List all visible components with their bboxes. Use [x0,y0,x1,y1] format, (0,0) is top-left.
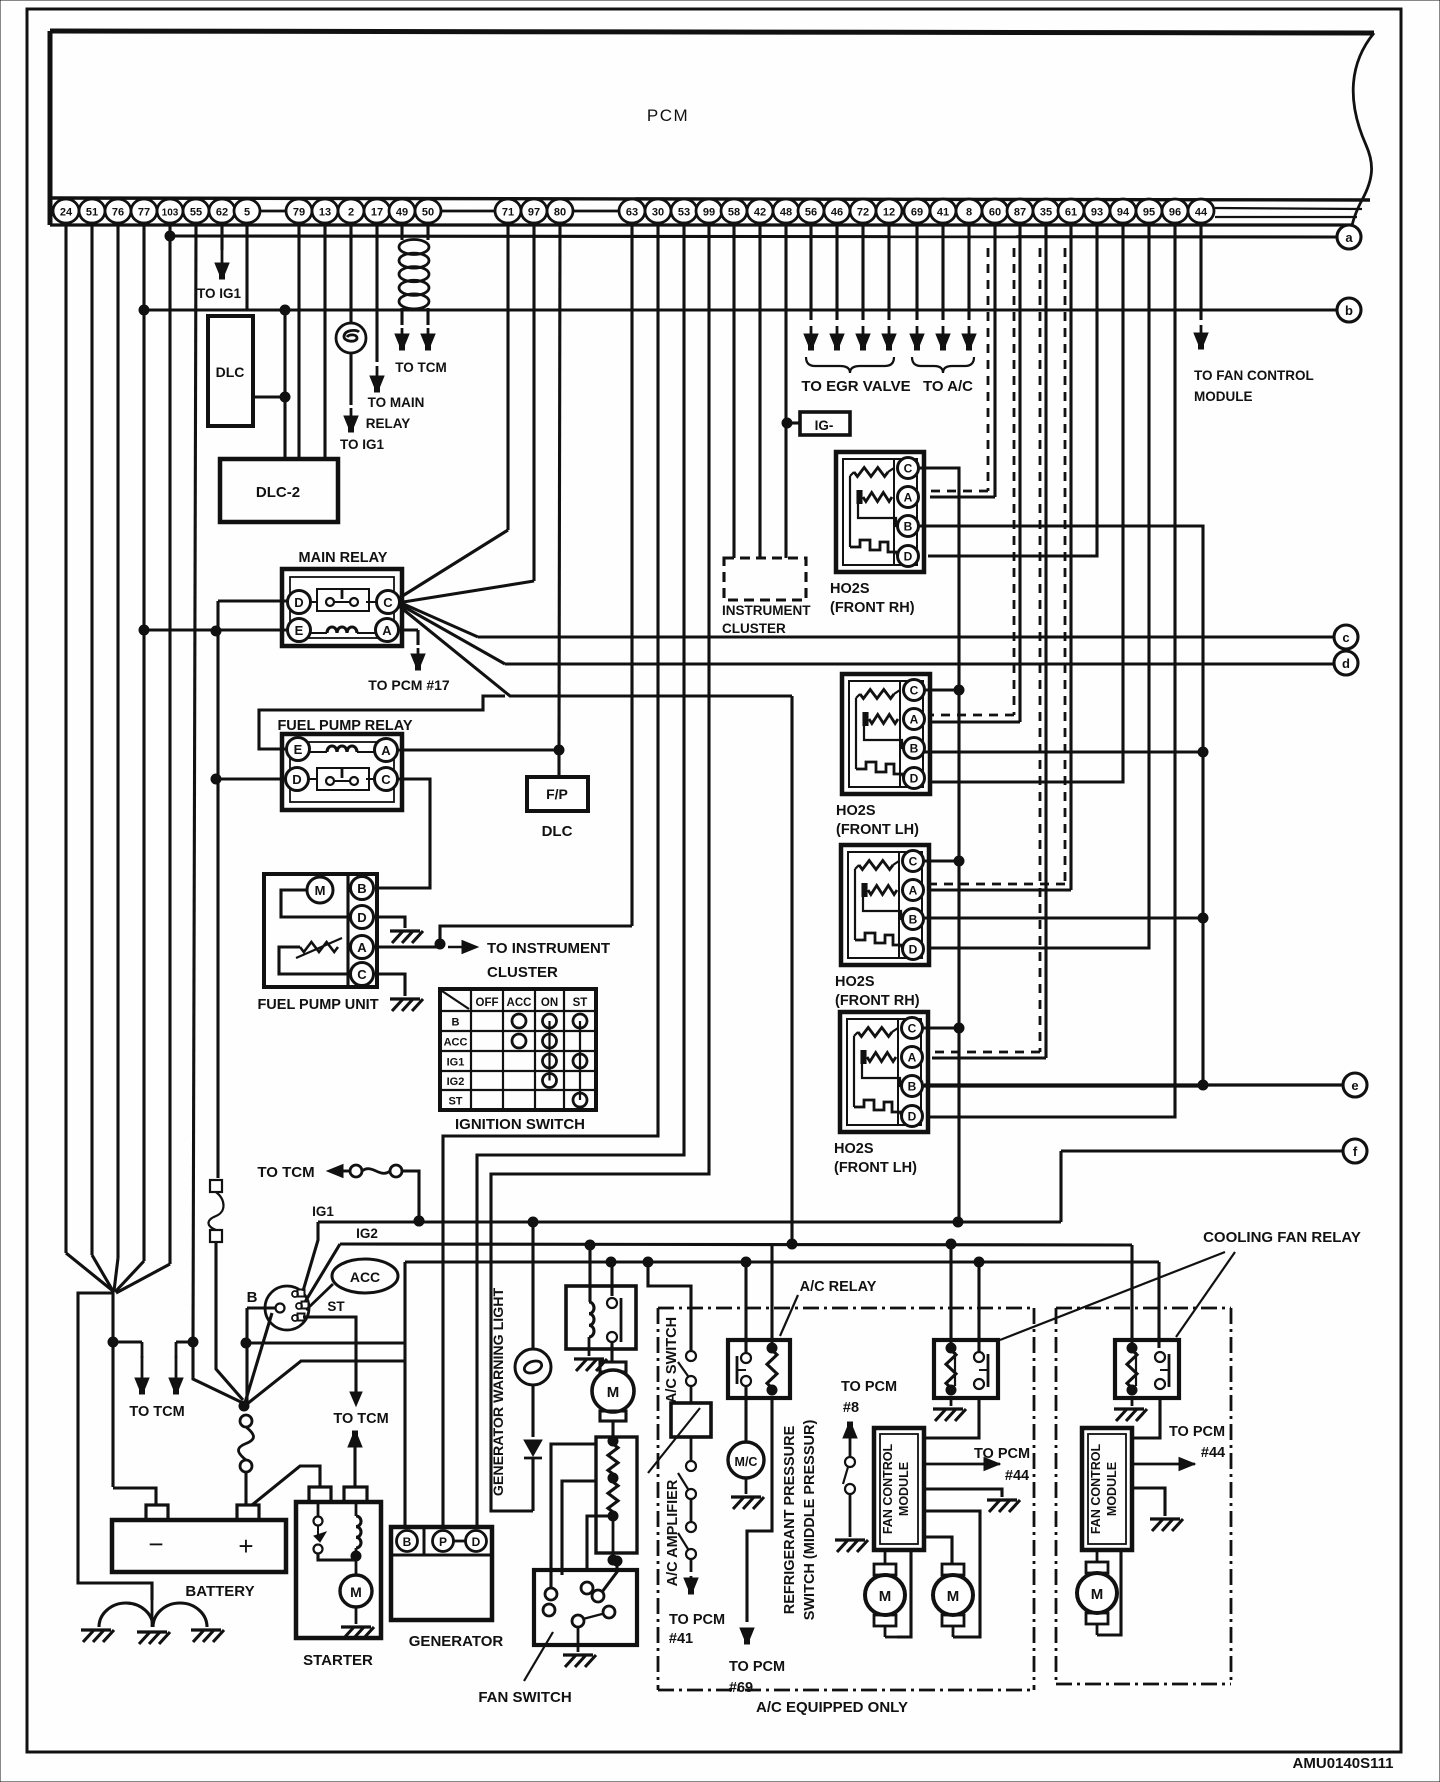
svg-text:SWITCH (MIDDLE PRESSUR): SWITCH (MIDDLE PRESSUR) [802,1420,818,1621]
svg-text:B: B [909,913,918,927]
svg-text:−: − [148,1529,163,1559]
svg-text:#8: #8 [843,1400,859,1416]
svg-text:PCM: PCM [647,106,689,125]
svg-text:58: 58 [728,207,740,219]
svg-text:OFF: OFF [476,997,499,1009]
svg-text:ST: ST [448,1096,462,1108]
svg-text:INSTRUMENT: INSTRUMENT [722,603,811,618]
svg-text:IG2: IG2 [356,1226,378,1241]
svg-text:B: B [403,1535,412,1549]
svg-text:C: C [383,595,393,610]
svg-text:M: M [315,883,326,898]
svg-text:D: D [292,772,301,787]
svg-text:ST: ST [573,997,588,1009]
svg-text:C: C [909,855,918,869]
svg-text:A: A [910,713,919,727]
svg-text:TO PCM #17: TO PCM #17 [368,677,450,693]
svg-text:94: 94 [1117,207,1130,219]
svg-text:C: C [908,1022,917,1036]
svg-text:71: 71 [502,207,514,219]
svg-text:TO EGR VALVE: TO EGR VALVE [801,378,910,395]
svg-text:12: 12 [883,207,895,219]
svg-text:79: 79 [293,207,305,219]
svg-text:(FRONT RH): (FRONT RH) [835,993,920,1009]
svg-text:95: 95 [1143,207,1155,219]
svg-text:BATTERY: BATTERY [185,1583,254,1600]
svg-text:TO PCM: TO PCM [669,1612,725,1628]
svg-text:TO TCM: TO TCM [395,360,447,375]
svg-text:(FRONT RH): (FRONT RH) [830,600,915,616]
svg-text:FAN CONTROL: FAN CONTROL [1089,1444,1103,1535]
svg-text:53: 53 [678,207,690,219]
svg-text:DLC: DLC [216,364,245,380]
svg-text:M: M [350,1584,362,1600]
svg-text:MODULE: MODULE [1194,389,1253,404]
svg-text:MODULE: MODULE [897,1462,911,1516]
svg-text:FUEL PUMP UNIT: FUEL PUMP UNIT [257,997,378,1013]
svg-text:D: D [357,910,366,925]
svg-text:TO TCM: TO TCM [257,1164,314,1181]
svg-text:44: 44 [1195,207,1208,219]
svg-text:P: P [439,1535,447,1549]
svg-text:103: 103 [162,208,179,219]
svg-text:96: 96 [1169,207,1181,219]
svg-text:TO INSTRUMENT: TO INSTRUMENT [487,940,610,957]
svg-text:A: A [382,623,392,638]
svg-text:ST: ST [327,1299,345,1314]
svg-text:FAN CONTROL: FAN CONTROL [881,1444,895,1535]
svg-text:72: 72 [857,207,869,219]
svg-text:(FRONT LH): (FRONT LH) [836,822,919,838]
svg-text:60: 60 [989,207,1001,219]
svg-text:COOLING FAN RELAY: COOLING FAN RELAY [1203,1229,1361,1246]
svg-text:A/C EQUIPPED ONLY: A/C EQUIPPED ONLY [756,1699,908,1716]
svg-text:87: 87 [1014,207,1026,219]
svg-text:CLUSTER: CLUSTER [487,964,558,981]
svg-text:b: b [1345,303,1353,318]
svg-text:A: A [357,940,367,955]
svg-text:B: B [247,1289,258,1306]
svg-text:A: A [909,884,918,898]
svg-text:#69: #69 [729,1680,753,1696]
svg-text:5: 5 [244,207,250,219]
svg-text:TO TCM: TO TCM [333,1411,388,1427]
svg-text:97: 97 [528,207,540,219]
svg-text:M: M [947,1588,960,1605]
svg-text:D: D [909,943,918,957]
svg-text:30: 30 [652,207,664,219]
svg-text:TO TCM: TO TCM [129,1404,184,1420]
svg-text:C: C [381,772,391,787]
svg-text:REFRIGERANT PRESSURE: REFRIGERANT PRESSURE [782,1425,798,1614]
svg-text:TO MAIN: TO MAIN [368,395,425,410]
svg-text:TO PCM: TO PCM [974,1446,1030,1462]
svg-text:41: 41 [937,207,949,219]
svg-text:ACC: ACC [350,1269,380,1285]
svg-text:MAIN RELAY: MAIN RELAY [299,550,388,566]
svg-text:GENERATOR: GENERATOR [409,1633,504,1650]
svg-text:#44: #44 [1005,1468,1029,1484]
svg-text:56: 56 [805,207,817,219]
svg-text:TO A/C: TO A/C [923,378,973,395]
svg-text:B: B [908,1080,917,1094]
svg-text:F/P: F/P [546,786,568,802]
svg-text:B: B [904,520,913,534]
svg-text:42: 42 [754,207,766,219]
svg-text:TO FAN CONTROL: TO FAN CONTROL [1194,368,1314,383]
svg-text:E: E [294,742,303,757]
svg-text:D: D [908,1110,917,1124]
svg-text:80: 80 [554,207,566,219]
svg-text:d: d [1342,656,1350,671]
svg-text:B: B [452,1017,460,1029]
svg-text:IG2: IG2 [447,1076,465,1088]
svg-text:GENERATOR WARNING LIGHT: GENERATOR WARNING LIGHT [491,1287,507,1496]
svg-text:2: 2 [348,207,354,219]
svg-text:48: 48 [780,207,792,219]
svg-text:TO PCM: TO PCM [1169,1424,1225,1440]
svg-text:M: M [879,1588,892,1605]
svg-text:D: D [472,1535,481,1549]
svg-text:HO2S: HO2S [830,581,870,597]
svg-text:IGNITION SWITCH: IGNITION SWITCH [455,1116,585,1133]
svg-text:IG1: IG1 [312,1204,334,1219]
svg-text:8: 8 [966,207,972,219]
svg-text:A: A [904,491,913,505]
svg-text:MODULE: MODULE [1105,1462,1119,1516]
svg-text:A/C SWITCH: A/C SWITCH [664,1317,680,1403]
svg-text:A: A [908,1051,917,1065]
svg-text:FAN SWITCH: FAN SWITCH [478,1689,571,1706]
svg-text:61: 61 [1065,207,1077,219]
svg-text:e: e [1351,1078,1358,1093]
svg-text:TO IG1: TO IG1 [340,437,385,452]
svg-text:C: C [910,684,919,698]
svg-text:D: D [294,595,303,610]
svg-text:RELAY: RELAY [366,416,411,431]
svg-text:(FRONT LH): (FRONT LH) [834,1160,917,1176]
svg-text:IG-: IG- [815,418,834,433]
svg-text:STARTER: STARTER [303,1652,373,1669]
svg-text:+: + [238,1531,253,1561]
svg-text:51: 51 [86,207,98,219]
svg-text:DLC: DLC [542,823,573,840]
svg-text:77: 77 [138,207,150,219]
svg-text:M: M [1091,1586,1104,1603]
svg-text:FUEL PUMP RELAY: FUEL PUMP RELAY [277,718,412,734]
svg-text:D: D [910,772,919,786]
svg-text:17: 17 [371,207,383,219]
svg-text:50: 50 [422,207,434,219]
svg-text:A/C RELAY: A/C RELAY [800,1279,877,1295]
svg-text:93: 93 [1091,207,1103,219]
svg-text:TO PCM: TO PCM [729,1659,785,1675]
svg-text:B: B [357,881,366,896]
svg-text:A: A [381,743,391,758]
svg-text:46: 46 [831,207,843,219]
svg-text:AMU0140S111: AMU0140S111 [1293,1755,1394,1772]
svg-text:63: 63 [626,207,638,219]
svg-text:76: 76 [112,207,124,219]
svg-text:ACC: ACC [507,997,532,1009]
svg-text:#44: #44 [1201,1445,1225,1461]
svg-text:TO IG1: TO IG1 [197,286,242,301]
svg-text:TO PCM: TO PCM [841,1379,897,1395]
svg-text:49: 49 [396,207,408,219]
svg-text:DLC-2: DLC-2 [256,484,300,501]
svg-text:ON: ON [541,997,558,1009]
svg-text:HO2S: HO2S [836,803,876,819]
svg-text:B: B [910,742,919,756]
svg-text:#41: #41 [669,1631,693,1647]
svg-text:24: 24 [60,207,73,219]
svg-text:M: M [607,1384,620,1401]
svg-text:69: 69 [911,207,923,219]
svg-text:a: a [1345,230,1353,245]
svg-text:E: E [295,623,304,638]
svg-text:IG1: IG1 [447,1057,465,1069]
svg-text:55: 55 [190,207,202,219]
svg-text:HO2S: HO2S [835,974,875,990]
svg-text:C: C [904,462,913,476]
svg-text:CLUSTER: CLUSTER [722,621,786,636]
svg-text:13: 13 [319,207,331,219]
svg-text:f: f [1353,1144,1358,1159]
svg-text:D: D [904,550,913,564]
svg-text:M/C: M/C [735,1455,758,1469]
svg-text:ACC: ACC [444,1037,468,1049]
svg-text:99: 99 [703,207,715,219]
svg-text:C: C [357,967,367,982]
svg-text:c: c [1342,630,1349,645]
svg-text:35: 35 [1040,207,1052,219]
svg-text:HO2S: HO2S [834,1141,874,1157]
svg-text:62: 62 [216,207,228,219]
